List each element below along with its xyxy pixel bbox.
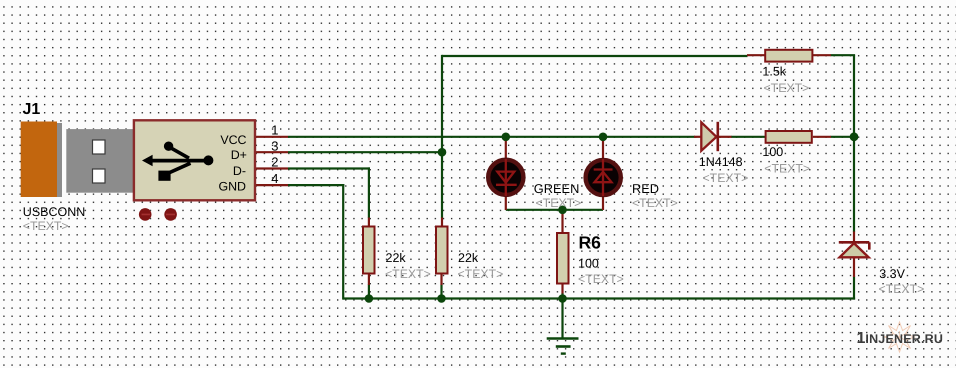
svg-text:<TEXT>: <TEXT> xyxy=(536,196,582,210)
svg-text:3.3V: 3.3V xyxy=(879,267,905,281)
svg-text:100: 100 xyxy=(578,256,599,270)
svg-text:1INJENER.RU: 1INJENER.RU xyxy=(857,330,944,347)
svg-text:<TEXT>: <TEXT> xyxy=(578,272,624,286)
svg-text:100: 100 xyxy=(762,145,783,159)
svg-text:<TEXT>: <TEXT> xyxy=(703,171,749,185)
svg-text:D-: D- xyxy=(233,164,246,178)
svg-text:<TEXT>: <TEXT> xyxy=(23,219,69,233)
svg-text:J1: J1 xyxy=(23,101,41,118)
svg-text:<TEXT>: <TEXT> xyxy=(879,282,925,296)
svg-text:3: 3 xyxy=(271,138,278,153)
svg-text:2: 2 xyxy=(271,155,278,170)
svg-text:1N4148: 1N4148 xyxy=(699,155,743,169)
svg-text:4: 4 xyxy=(271,171,278,186)
svg-text:1.5k: 1.5k xyxy=(762,64,786,78)
svg-text:<TEXT>: <TEXT> xyxy=(764,81,810,95)
svg-text:22k: 22k xyxy=(458,251,479,265)
svg-text:USBCONN: USBCONN xyxy=(23,205,86,219)
svg-text:22k: 22k xyxy=(386,251,407,265)
svg-text:GND: GND xyxy=(218,180,246,194)
svg-text:VCC: VCC xyxy=(220,133,246,147)
svg-text:RED: RED xyxy=(632,181,659,196)
svg-text:<TEXT>: <TEXT> xyxy=(458,267,504,281)
svg-text:GREEN: GREEN xyxy=(534,181,580,196)
svg-text:1: 1 xyxy=(271,123,278,138)
svg-text:<TEXT>: <TEXT> xyxy=(385,267,431,281)
svg-text:<TEXT>: <TEXT> xyxy=(764,162,810,176)
svg-text:<TEXT>: <TEXT> xyxy=(632,196,678,210)
svg-text:R6: R6 xyxy=(579,232,602,252)
svg-text:D+: D+ xyxy=(231,148,247,162)
